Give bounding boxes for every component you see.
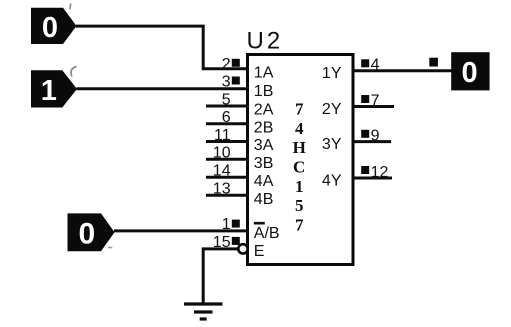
part value 74HC157 vertical text [293,100,306,235]
wire pin 13 stub (4B) [206,194,249,197]
ground symbol [184,304,223,319]
svg-text:3A: 3A [254,137,274,154]
pin 4 state square [361,59,369,67]
pin label A/B with overline on A [254,222,280,242]
svg-text:H: H [293,138,306,157]
svg-text:0: 0 [78,218,95,251]
key tick mark near flag F1 [70,4,71,10]
svg-text:1: 1 [295,177,304,196]
logic output probe value 0 [451,52,489,90]
svg-text:13: 13 [213,181,231,198]
pin 2 state square [232,59,240,67]
wire pin 5 stub (2A) [206,105,249,108]
svg-text:6: 6 [222,109,231,126]
wire from flag F3 to pin 1 (A/B) [114,229,249,232]
svg-text:1: 1 [41,75,57,107]
svg-text:1B: 1B [254,83,274,100]
wire pin 15 (E) to ground [203,249,238,303]
wire pin 14 stub (4A) [206,176,249,179]
key arc mark near flag F2 [71,67,76,77]
svg-text:0: 0 [462,57,478,89]
svg-text:3: 3 [222,73,231,90]
wire pin 7 stub (2Y) [352,105,394,108]
pin 12 state square [361,166,369,174]
svg-text:1: 1 [222,216,231,233]
svg-text:4Y: 4Y [322,172,342,189]
svg-text:1A: 1A [254,64,274,81]
svg-text:2B: 2B [254,119,274,136]
svg-text:C: C [293,158,305,177]
svg-text:15: 15 [213,234,231,251]
logic input flag F1 value 0 [31,8,77,44]
svg-text:7: 7 [371,92,380,109]
svg-text:1Y: 1Y [322,65,342,82]
logic input flag F3 value 0 [68,213,115,251]
pin 7 state square [361,95,369,103]
svg-text:3Y: 3Y [322,136,342,153]
pin 15 state square [232,237,240,245]
svg-text:9: 9 [371,127,380,144]
svg-text:14: 14 [213,163,231,180]
IC U2 74HC157 body [248,55,354,265]
wire pin 10 stub (3B) [206,158,249,161]
wire pin 9 stub (3Y) [352,140,391,143]
svg-text:4A: 4A [254,173,274,190]
wire from flag F2 to pin 3 (1B) [77,87,250,90]
net state square on output wire [429,58,438,67]
svg-text:A/B: A/B [254,225,280,242]
svg-text:10: 10 [213,145,231,162]
svg-text:4: 4 [371,57,380,74]
pin 9 state square [361,130,369,138]
svg-text:E: E [254,243,265,260]
svg-text:5: 5 [222,91,231,108]
wire pin 4 (1Y) to output indicator [352,69,452,72]
wire pin 12 stub (4Y) [352,177,392,180]
svg-text:11: 11 [214,127,231,144]
pin 15 inversion bubble [238,244,247,253]
svg-text:4B: 4B [254,191,274,208]
svg-text:2Y: 2Y [322,101,342,118]
svg-text:0: 0 [42,12,58,44]
svg-text:2A: 2A [254,102,274,119]
pin 1 state square [232,220,240,228]
pin 3 state square [232,77,240,85]
wire pin 6 stub (2B) [206,122,249,125]
svg-text:U2: U2 [247,27,284,54]
wire pin 11 stub (3A) [206,140,249,143]
small dash mark near flag F3 [108,247,112,249]
logic input flag F2 value 1 [31,70,77,107]
svg-text:2: 2 [222,56,231,73]
svg-text:3B: 3B [254,155,274,172]
wire from flag F1 to pin 2 (1A) [76,26,249,69]
svg-text:5: 5 [295,196,304,215]
svg-text:7: 7 [295,100,304,119]
svg-text:7: 7 [295,215,304,234]
svg-text:4: 4 [295,119,304,138]
svg-text:12: 12 [371,164,389,181]
